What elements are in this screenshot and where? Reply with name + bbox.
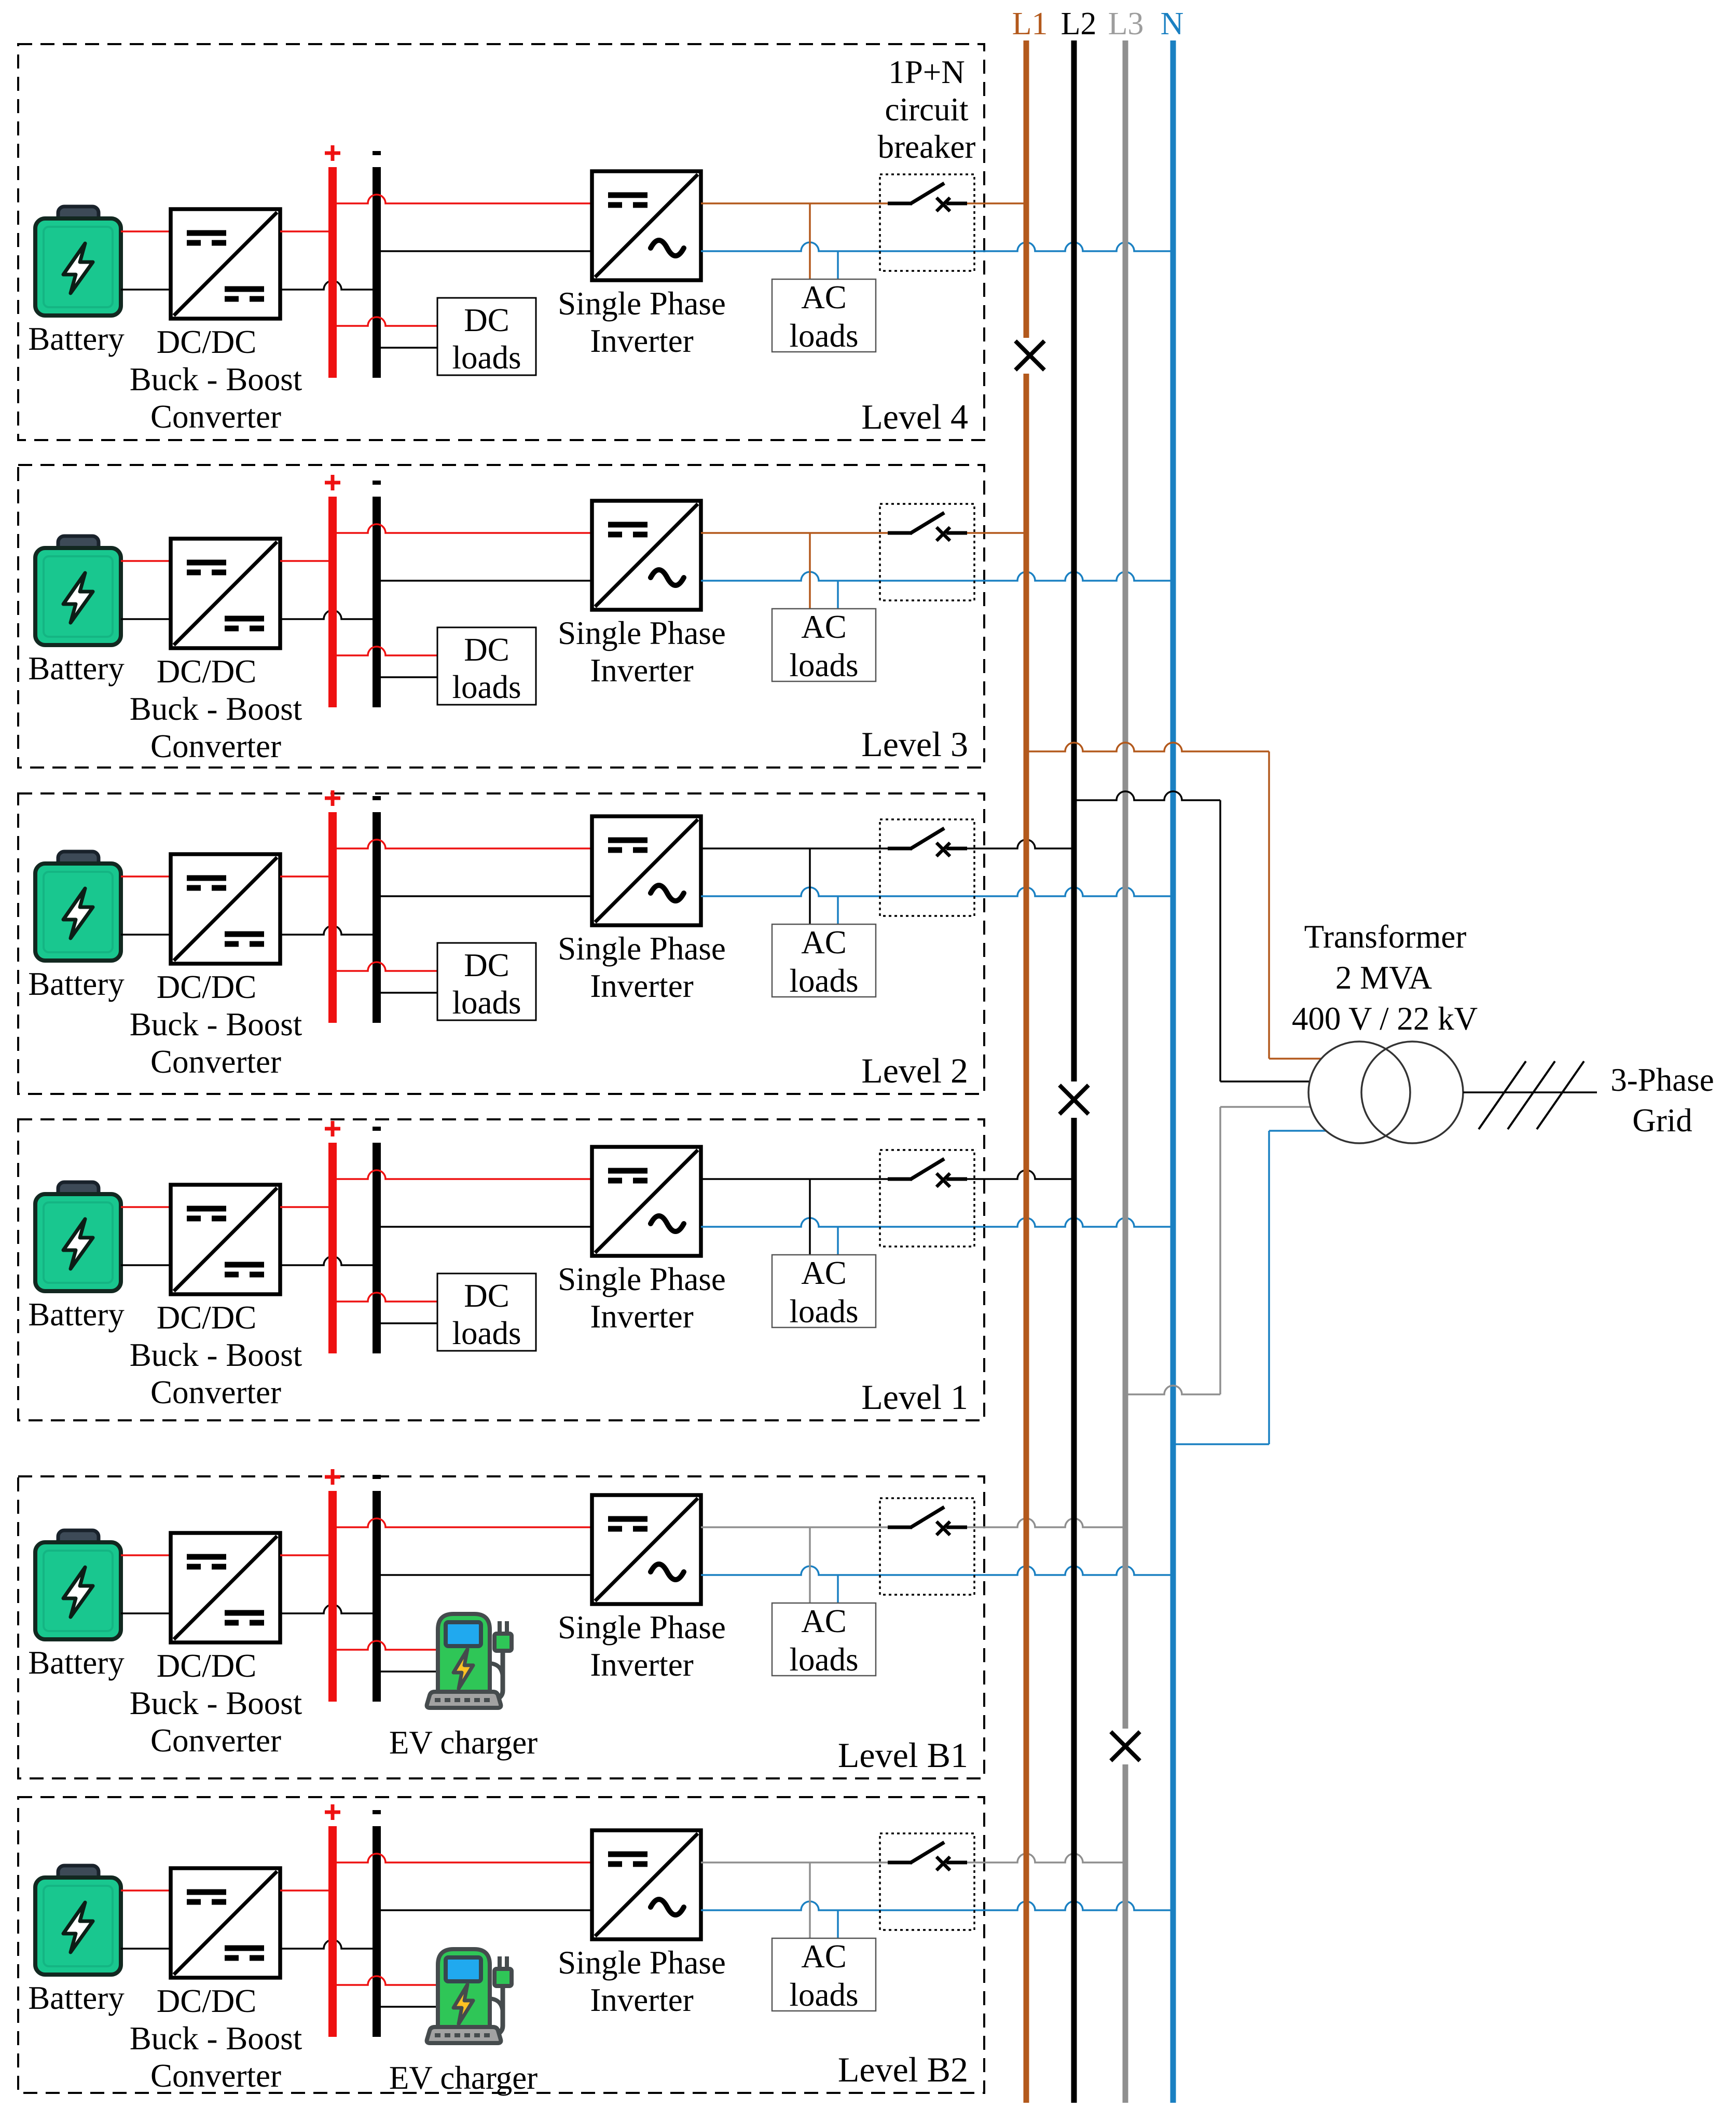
svg-text:circuit: circuit	[885, 91, 969, 128]
label Single Phase Inverter	[558, 285, 726, 359]
svg-text:Converter: Converter	[150, 1374, 281, 1410]
wire inverter phase out to breaker	[701, 1861, 888, 1864]
1P+N circuit breaker dotted box	[880, 174, 974, 271]
wire converter+ to +bus bar	[280, 1206, 333, 1208]
svg-text:Battery: Battery	[28, 321, 125, 357]
transformer T1	[1308, 1042, 1463, 1143]
svg-text:Converter: Converter	[150, 2058, 281, 2094]
AC loads box	[772, 1938, 876, 2011]
- polarity label	[373, 1475, 381, 1479]
svg-text:Buck - Boost: Buck - Boost	[130, 1006, 302, 1043]
svg-text:DC: DC	[464, 947, 509, 983]
wire +bar to inverter (hops -bar)	[333, 1518, 592, 1527]
wire inverter phase out to breaker	[701, 532, 888, 534]
- DC bus bar	[373, 497, 381, 707]
wire -bar to EV charger	[377, 2006, 439, 2008]
svg-text:AC: AC	[801, 1938, 847, 1975]
label AC loads	[790, 924, 859, 999]
Level B2 enclosure dashed box	[18, 1797, 984, 2093]
battery icon	[35, 1182, 121, 1291]
svg-text:AC: AC	[801, 924, 847, 961]
label Single Phase Inverter	[558, 1261, 726, 1335]
wire inverter phase out to breaker	[701, 1178, 888, 1180]
svg-text:loads: loads	[790, 963, 859, 999]
wire converter- to -bus bar (hops +bar)	[280, 926, 377, 935]
label DC/DC Buck - Boost Converter	[130, 653, 302, 764]
label DC/DC Buck - Boost Converter	[130, 969, 302, 1080]
label Single Phase Inverter	[558, 615, 726, 689]
DC loads box	[437, 298, 536, 375]
svg-text:Buck - Boost: Buck - Boost	[130, 2020, 302, 2057]
wire inverter neutral out to N bus (hops crossings)	[701, 1566, 1173, 1575]
wire breaker to phase bus	[967, 202, 1026, 204]
wire battery- to DC/DC converter	[121, 618, 171, 620]
svg-text:Transformer: Transformer	[1304, 919, 1467, 955]
DC/DC buck-boost converter	[171, 1185, 280, 1294]
wire -bar to DC loads	[377, 1322, 437, 1324]
svg-text:loads: loads	[452, 339, 521, 376]
battery icon	[35, 852, 121, 961]
svg-text:Buck - Boost: Buck - Boost	[130, 1337, 302, 1373]
- DC bus bar	[373, 1491, 381, 1702]
svg-text:Converter: Converter	[150, 728, 281, 764]
svg-text:Single Phase: Single Phase	[558, 285, 726, 322]
wire N to transformer	[1173, 1131, 1326, 1444]
AC loads box	[772, 609, 876, 681]
svg-text:AC: AC	[801, 1255, 847, 1291]
wire inverter phase out to breaker	[701, 202, 888, 204]
breaker switch symbol	[888, 183, 967, 211]
svg-text:N: N	[1161, 6, 1184, 42]
wire battery+ to DC/DC converter	[121, 1206, 171, 1208]
wire battery- to DC/DC converter	[121, 1948, 171, 1950]
Level 2 enclosure dashed box	[18, 793, 984, 1094]
svg-text:Level 4: Level 4	[861, 397, 968, 436]
battery icon	[35, 1866, 121, 1975]
wire +bar to DC loads (hops -bar)	[333, 1293, 437, 1302]
neutral drop wire to AC loads	[837, 1575, 839, 1603]
svg-text:AC: AC	[801, 609, 847, 645]
battery icon	[35, 1530, 121, 1639]
svg-text:Level 1: Level 1	[861, 1377, 968, 1417]
svg-text:Buck - Boost: Buck - Boost	[130, 361, 302, 398]
3-phase slash marks	[1479, 1061, 1584, 1129]
wire inverter neutral out to N bus (hops crossings)	[701, 887, 1173, 896]
svg-text:Inverter: Inverter	[590, 323, 693, 359]
wire battery- to DC/DC converter	[121, 1612, 171, 1614]
+ polarity label	[325, 1469, 340, 1485]
neutral drop wire to AC loads	[837, 1910, 839, 1938]
wire converter- to -bus bar (hops +bar)	[280, 1940, 377, 1949]
wire +bar to DC loads (hops -bar)	[333, 647, 437, 655]
DC/DC buck-boost converter	[171, 1533, 280, 1642]
wire converter- to -bus bar (hops +bar)	[280, 610, 377, 619]
single phase inverter	[592, 1830, 701, 1939]
wire breaker to phase bus	[967, 1170, 1074, 1179]
- DC bus bar	[373, 812, 381, 1023]
svg-text:Inverter: Inverter	[590, 1298, 693, 1335]
wire converter- to -bus bar (hops +bar)	[280, 281, 377, 290]
svg-text:DC/DC: DC/DC	[157, 1299, 257, 1336]
wire inverter neutral out to N bus (hops crossings)	[701, 242, 1173, 251]
EV charger icon	[427, 1949, 512, 2043]
DC loads box	[437, 627, 536, 705]
svg-text:loads: loads	[452, 669, 521, 705]
svg-text:DC: DC	[464, 632, 509, 668]
single phase inverter	[592, 816, 701, 925]
open point X on L2	[1059, 1085, 1089, 1114]
label DC/DC Buck - Boost Converter	[130, 324, 302, 435]
svg-text:Converter: Converter	[150, 399, 281, 435]
battery icon	[35, 536, 121, 645]
neutral drop wire to AC loads	[837, 1227, 839, 1255]
single phase inverter	[592, 501, 701, 610]
svg-text:2 MVA: 2 MVA	[1335, 960, 1432, 996]
phase drop wire to AC loads	[809, 1527, 811, 1603]
- polarity label	[373, 481, 381, 485]
single phase inverter	[592, 1495, 701, 1604]
wire +bar to inverter (hops -bar)	[333, 524, 592, 533]
label DC/DC Buck - Boost Converter	[130, 1648, 302, 1759]
1P+N circuit breaker dotted box	[880, 1833, 974, 1930]
svg-text:EV charger: EV charger	[389, 1724, 538, 1761]
wire transformer to grid	[1463, 1091, 1597, 1093]
wire +bar to EV charger (hops -bar)	[333, 1976, 439, 1985]
svg-text:Inverter: Inverter	[590, 652, 693, 689]
- polarity label	[373, 1810, 381, 1814]
wire L2 to transformer	[1074, 791, 1310, 1081]
neutral drop wire to AC loads	[837, 896, 839, 924]
svg-text:Single Phase: Single Phase	[558, 1609, 726, 1646]
label DC loads	[452, 302, 521, 376]
wire +bar to DC loads (hops -bar)	[333, 962, 437, 971]
wire inverter phase out to breaker	[701, 847, 888, 850]
DC/DC buck-boost converter	[171, 209, 280, 319]
+ polarity label	[325, 1121, 340, 1136]
bus N line	[1170, 40, 1176, 2103]
label DC loads	[452, 1278, 521, 1351]
single phase inverter	[592, 1147, 701, 1256]
+ DC bus bar	[328, 497, 337, 707]
svg-text:Inverter: Inverter	[590, 1982, 693, 2018]
wire battery+ to DC/DC converter	[121, 1554, 171, 1556]
wire L1 to transformer	[1026, 743, 1321, 1059]
battery icon	[35, 207, 121, 316]
- DC bus bar	[373, 1826, 381, 2037]
1P+N circuit breaker dotted box	[880, 1150, 974, 1247]
breaker switch symbol	[888, 513, 967, 541]
svg-text:Battery: Battery	[28, 1296, 125, 1333]
svg-text:Battery: Battery	[28, 1980, 125, 2016]
svg-text:AC: AC	[801, 1603, 847, 1639]
bus L3 line	[1123, 40, 1128, 2103]
wire converter- to -bus bar (hops +bar)	[280, 1256, 377, 1265]
open point X on L1	[1015, 341, 1044, 370]
wire L3 to transformer	[1125, 1107, 1311, 1394]
svg-text:loads: loads	[790, 1641, 859, 1678]
wire battery+ to DC/DC converter	[121, 875, 171, 878]
svg-text:400 V / 22 kV: 400 V / 22 kV	[1292, 1001, 1478, 1037]
label DC/DC Buck - Boost Converter	[130, 1983, 302, 2094]
svg-text:Battery: Battery	[28, 1645, 125, 1681]
wire -bar to inverter	[377, 250, 592, 252]
+ DC bus bar	[328, 1143, 337, 1353]
wire converter+ to +bus bar	[280, 230, 333, 232]
+ polarity label	[325, 1804, 340, 1820]
wire -bar to DC loads	[377, 676, 437, 678]
wire battery+ to DC/DC converter	[121, 1889, 171, 1892]
wire inverter phase out to breaker	[701, 1526, 888, 1528]
label AC loads	[790, 609, 859, 683]
breaker switch symbol	[888, 1507, 967, 1535]
breaker switch symbol	[888, 1159, 967, 1187]
Level B1 enclosure dashed box	[18, 1476, 984, 1778]
- DC bus bar	[373, 1143, 381, 1353]
svg-text:Inverter: Inverter	[590, 968, 693, 1004]
label Single Phase Inverter	[558, 930, 726, 1004]
svg-text:DC/DC: DC/DC	[157, 1983, 257, 2019]
+ DC bus bar	[328, 167, 337, 378]
wire battery+ to DC/DC converter	[121, 230, 171, 232]
label AC loads	[790, 1938, 859, 2013]
wire +bar to inverter (hops -bar)	[333, 840, 592, 848]
svg-text:loads: loads	[790, 647, 859, 683]
neutral drop wire to AC loads	[837, 251, 839, 279]
phase drop wire to AC loads	[809, 533, 811, 609]
wire inverter neutral out to N bus (hops crossings)	[701, 1901, 1173, 1910]
wire battery- to DC/DC converter	[121, 934, 171, 936]
svg-text:EV charger: EV charger	[389, 2060, 538, 2096]
svg-text:loads: loads	[790, 1293, 859, 1330]
+ DC bus bar	[328, 1826, 337, 2037]
svg-text:Battery: Battery	[28, 966, 125, 1002]
svg-text:Converter: Converter	[150, 1044, 281, 1080]
Level 3 enclosure dashed box	[18, 465, 984, 768]
wire converter+ to +bus bar	[280, 1889, 333, 1892]
wire converter+ to +bus bar	[280, 875, 333, 878]
+ polarity label	[325, 475, 340, 490]
+ DC bus bar	[328, 1491, 337, 1702]
wire +bar to DC loads (hops -bar)	[333, 317, 437, 326]
svg-text:Level B2: Level B2	[838, 2050, 968, 2089]
svg-text:DC: DC	[464, 302, 509, 338]
Level 4 enclosure dashed box	[18, 44, 984, 440]
wire -bar to inverter	[377, 1909, 592, 1911]
svg-text:Single Phase: Single Phase	[558, 615, 726, 651]
wire -bar to inverter	[377, 1574, 592, 1576]
svg-text:Battery: Battery	[28, 650, 125, 687]
label 1P+N circuit breaker	[878, 54, 976, 165]
svg-text:DC/DC: DC/DC	[157, 324, 257, 360]
svg-text:Level 2: Level 2	[861, 1051, 968, 1090]
label AC loads	[790, 1603, 859, 1678]
wire -bar to inverter	[377, 580, 592, 582]
wire +bar to EV charger (hops -bar)	[333, 1641, 439, 1650]
wire +bar to inverter (hops -bar)	[333, 1854, 592, 1862]
svg-text:Single Phase: Single Phase	[558, 1261, 726, 1297]
1P+N circuit breaker dotted box	[880, 1498, 974, 1595]
svg-text:DC/DC: DC/DC	[157, 653, 257, 690]
phase drop wire to AC loads	[809, 848, 811, 924]
svg-text:Single Phase: Single Phase	[558, 1944, 726, 1981]
wire -bar to inverter	[377, 895, 592, 897]
1P+N circuit breaker dotted box	[880, 504, 974, 600]
label DC/DC Buck - Boost Converter	[130, 1299, 302, 1410]
svg-text:DC: DC	[464, 1278, 509, 1314]
AC loads box	[772, 1603, 876, 1676]
- polarity label	[373, 151, 381, 155]
svg-text:Level B1: Level B1	[838, 1735, 968, 1775]
wire converter- to -bus bar (hops +bar)	[280, 1605, 377, 1613]
wire -bar to EV charger	[377, 1670, 439, 1673]
wire -bar to inverter	[377, 1226, 592, 1228]
- DC bus bar	[373, 167, 381, 378]
phase drop wire to AC loads	[809, 1862, 811, 1938]
label AC loads	[790, 279, 859, 354]
AC loads box	[772, 279, 876, 352]
DC/DC buck-boost converter	[171, 1868, 280, 1978]
svg-text:breaker: breaker	[878, 129, 976, 165]
wire battery- to DC/DC converter	[121, 1264, 171, 1266]
phase drop wire to AC loads	[809, 1179, 811, 1255]
wire breaker to phase bus	[967, 532, 1026, 534]
+ polarity label	[325, 145, 340, 161]
single phase inverter	[592, 171, 701, 280]
wire converter+ to +bus bar	[280, 560, 333, 562]
wire breaker to phase bus	[967, 840, 1074, 848]
DC/DC buck-boost converter	[171, 539, 280, 648]
svg-text:Level 3: Level 3	[861, 724, 968, 764]
AC loads box	[772, 1255, 876, 1327]
label 3-Phase Grid	[1610, 1062, 1714, 1139]
svg-text:1P+N: 1P+N	[888, 54, 965, 90]
+ polarity label	[325, 790, 340, 806]
breaker switch symbol	[888, 828, 967, 856]
wire converter+ to +bus bar	[280, 1554, 333, 1556]
open point X on L3	[1111, 1732, 1140, 1761]
svg-text:AC: AC	[801, 279, 847, 316]
svg-text:Grid: Grid	[1632, 1102, 1692, 1139]
svg-text:L2: L2	[1061, 6, 1097, 42]
DC/DC buck-boost converter	[171, 854, 280, 964]
wire +bar to inverter (hops -bar)	[333, 1170, 592, 1179]
label Single Phase Inverter	[558, 1944, 726, 2018]
svg-text:Buck - Boost: Buck - Boost	[130, 1685, 302, 1721]
wire battery+ to DC/DC converter	[121, 560, 171, 562]
DC loads box	[437, 943, 536, 1020]
AC loads box	[772, 924, 876, 997]
label DC loads	[452, 947, 521, 1021]
Level 1 enclosure dashed box	[18, 1119, 984, 1420]
1P+N circuit breaker dotted box	[880, 819, 974, 916]
bus L2 line	[1071, 40, 1077, 2103]
wire battery- to DC/DC converter	[121, 289, 171, 291]
svg-text:L3: L3	[1108, 6, 1144, 42]
svg-text:Single Phase: Single Phase	[558, 930, 726, 967]
label Single Phase Inverter	[558, 1609, 726, 1683]
svg-text:DC/DC: DC/DC	[157, 969, 257, 1005]
svg-text:loads: loads	[452, 984, 521, 1021]
bus L1 line	[1024, 40, 1029, 2103]
- polarity label	[373, 1127, 381, 1131]
label Transformer 2 MVA 400 V / 22 kV	[1292, 919, 1478, 1037]
svg-text:loads: loads	[452, 1315, 521, 1351]
wire inverter neutral out to N bus (hops crossings)	[701, 1218, 1173, 1227]
breaker switch symbol	[888, 1842, 967, 1870]
label AC loads	[790, 1255, 859, 1330]
svg-text:loads: loads	[790, 1977, 859, 2013]
svg-text:L1: L1	[1012, 6, 1048, 42]
svg-text:Inverter: Inverter	[590, 1647, 693, 1683]
svg-text:Buck - Boost: Buck - Boost	[130, 691, 302, 727]
wire breaker to phase bus	[967, 1854, 1125, 1862]
DC loads box	[437, 1273, 536, 1351]
wire -bar to DC loads	[377, 347, 437, 349]
svg-text:Converter: Converter	[150, 1722, 281, 1759]
wire +bar to inverter (hops -bar)	[333, 195, 592, 203]
neutral drop wire to AC loads	[837, 581, 839, 609]
phase drop wire to AC loads	[809, 203, 811, 279]
wire inverter neutral out to N bus (hops crossings)	[701, 572, 1173, 581]
svg-text:DC/DC: DC/DC	[157, 1648, 257, 1684]
svg-text:loads: loads	[790, 318, 859, 354]
svg-text:3-Phase: 3-Phase	[1610, 1062, 1714, 1098]
wire -bar to DC loads	[377, 992, 437, 994]
+ DC bus bar	[328, 812, 337, 1023]
- polarity label	[373, 796, 381, 800]
wire breaker to phase bus	[967, 1518, 1125, 1527]
EV charger icon	[427, 1614, 512, 1708]
label DC loads	[452, 632, 521, 705]
